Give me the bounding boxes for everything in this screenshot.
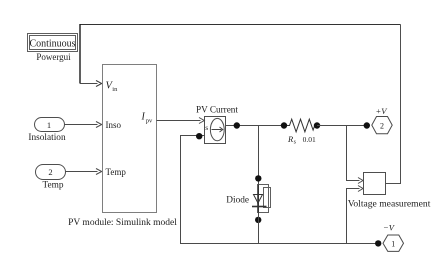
voltage measurement block: [364, 173, 386, 195]
wire negative stub from current block: [181, 136, 379, 244]
powergui block Continuous: [28, 34, 78, 52]
junction dot negative stub: [196, 133, 202, 139]
svg-text:Continuous: Continuous: [29, 39, 75, 50]
resistor Rs: [281, 122, 287, 128]
current measurement block U1 PV Current: [205, 117, 226, 144]
junction dot diode bottom: [255, 217, 261, 223]
PV module block: [103, 65, 157, 213]
svg-text:in: in: [112, 86, 118, 93]
wire resistor to +V: [317, 125, 367, 127]
wire Ipv to current measurement: [157, 120, 201, 122]
wire Insolation to Inso port: [65, 124, 98, 126]
feedback wire: voltage measurement output segment: [386, 25, 401, 184]
feedback wire: left vertical segment: [79, 24, 81, 84]
feedback wire: stub into Vin: [80, 83, 98, 85]
inport 1 Insolation: [35, 118, 65, 132]
svg-text:s: s: [205, 123, 208, 132]
diode branch wire from main wire down: [258, 126, 260, 185]
svg-text:Voltage measurement: Voltage measurement: [348, 199, 431, 210]
wire bottom rail to voltage measurement minus input: [347, 189, 360, 244]
junction dot -V: [375, 240, 381, 246]
outport 2 +V: [372, 117, 392, 134]
junction dot +V: [364, 122, 370, 128]
svg-text:Diode: Diode: [226, 196, 249, 206]
diode D1 block: [252, 185, 271, 213]
svg-text:Temp: Temp: [106, 167, 127, 177]
junction dot current output: [234, 122, 240, 128]
svg-text:2: 2: [48, 167, 52, 177]
svg-text:Temp: Temp: [42, 181, 63, 191]
svg-text:−V: −V: [383, 223, 396, 233]
inport 2 Temp: [36, 165, 66, 180]
svg-text:1: 1: [391, 240, 395, 249]
svg-text:0.01: 0.01: [303, 135, 316, 144]
wire Temp to Temp port: [66, 171, 98, 173]
svg-text:PV Current: PV Current: [196, 105, 238, 115]
wire diode to bottom rail: [258, 213, 260, 244]
svg-text:+V: +V: [376, 106, 389, 116]
svg-text:Inso: Inso: [106, 120, 122, 130]
svg-text:pv: pv: [146, 117, 153, 124]
junction dot diode top: [255, 175, 261, 181]
svg-text:Powergui: Powergui: [36, 52, 71, 62]
svg-text:Insolation: Insolation: [28, 133, 66, 143]
svg-text:PV module: Simulink model: PV module: Simulink model: [68, 218, 177, 228]
wire +V node to voltage measurement plus input: [347, 126, 360, 181]
arrowhead into Vin port: [96, 81, 102, 87]
feedback wire: top horizontal segment: [80, 24, 401, 26]
svg-text:1: 1: [47, 120, 51, 130]
svg-text:2: 2: [380, 122, 384, 131]
svg-text:I: I: [141, 112, 146, 123]
wire current block output to resistor: [226, 125, 285, 127]
outport 1 -V: [383, 235, 404, 251]
